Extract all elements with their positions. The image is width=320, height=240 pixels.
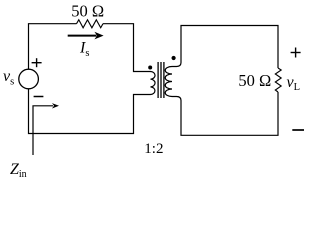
svg-text:50 Ω: 50 Ω xyxy=(238,71,271,90)
polarity - of source xyxy=(34,96,44,98)
resistor 50Ω (load resistor, vertical zigzag) xyxy=(275,68,281,92)
inductor: transformer primary winding (1) xyxy=(151,72,156,95)
input impedance arrow Zin xyxy=(33,103,59,155)
polarity - of load xyxy=(292,129,304,131)
svg-text:50 Ω: 50 Ω xyxy=(71,2,104,21)
polarity dot: primary xyxy=(148,66,152,70)
wire: right loop bottom (load bottom, bottom wire, up to secondary bottom stub) xyxy=(172,92,278,135)
wire: left loop top-right (resistor to primary top stub) xyxy=(103,24,151,72)
svg-text:vs: vs xyxy=(3,68,14,87)
wire: right loop top (secondary top stub, top wire, down to load) xyxy=(172,26,278,69)
transformer core (3 lines) xyxy=(158,62,164,98)
polarity + of load xyxy=(291,48,301,58)
current arrow Is xyxy=(68,32,104,40)
polarity dot: secondary xyxy=(172,56,176,60)
inductor: transformer secondary winding (2) xyxy=(165,67,172,97)
svg-text:1:2: 1:2 xyxy=(144,141,163,157)
resistor 50Ω (source resistor, horizontal zigzag) xyxy=(77,20,104,28)
wire: left loop top-left (source top to resistor) xyxy=(29,24,77,69)
polarity + of source xyxy=(32,58,42,67)
svg-text:Zin: Zin xyxy=(10,161,27,180)
wire: left loop bottom (primary bottom stub, bottom wire, up to source) xyxy=(29,89,151,134)
svg-text:vL: vL xyxy=(287,74,301,93)
voltage source vs (circle) xyxy=(19,69,39,89)
svg-text:Is: Is xyxy=(79,40,89,59)
